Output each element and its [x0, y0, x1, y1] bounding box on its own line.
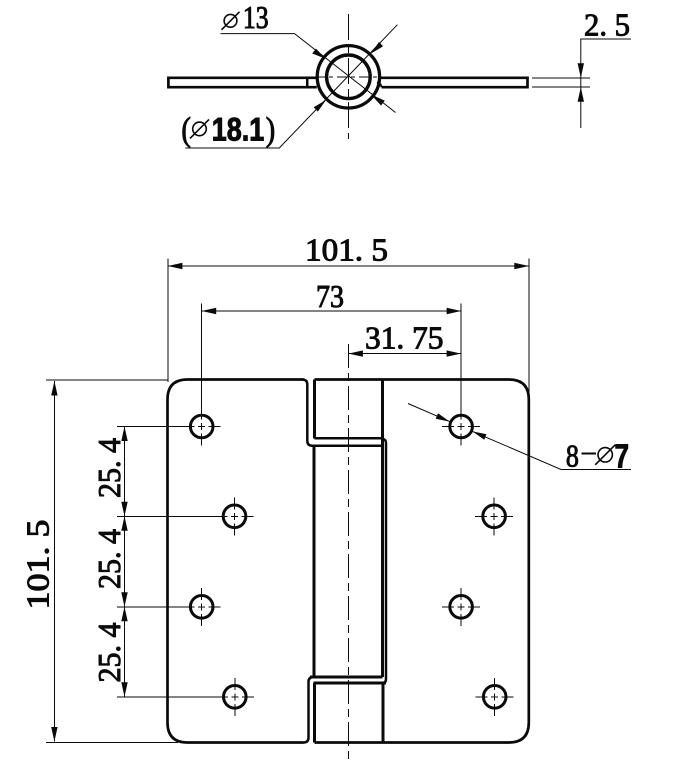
extension lines 101.5 top — [167, 259, 169, 383]
arrow 101.5-left bottom — [51, 727, 57, 742]
bottom knuckle right edge — [382, 683, 385, 743]
knuckle inner circle (⌀13) — [327, 55, 371, 99]
holes 8-dia7 — [190, 415, 506, 708]
hole R1 — [450, 415, 473, 438]
horizontal centerline of knuckle — [315, 76, 382, 78]
svg-text:101. 5: 101. 5 — [20, 520, 56, 610]
bottom knuckle top edge — [314, 682, 387, 685]
svg-text:13: 13 — [243, 0, 269, 35]
spring tube bottom edge — [310, 676, 382, 679]
arrow 101.5 left — [168, 263, 183, 269]
svg-text:8: 8 — [566, 437, 579, 473]
svg-text:73: 73 — [316, 278, 344, 314]
extension lines 101.5 left — [46, 379, 168, 381]
hole L1 — [190, 415, 213, 438]
top knuckle bottom edge — [315, 437, 383, 440]
arrow 73 left — [202, 308, 217, 314]
right leaf inner edge (outer right line) — [383, 439, 387, 683]
arrow dia13 lower-right — [371, 95, 385, 106]
top knuckle right edge / tube right inner edge — [381, 380, 384, 678]
leader line dia13 — [221, 34, 396, 113]
left leaf outline — [168, 380, 304, 743]
hinge pin centerline (front view) — [347, 344, 349, 760]
knuckle outer circle (⌀18.1) — [317, 46, 379, 108]
hole L3 — [190, 596, 213, 619]
2.5 dimension line — [581, 39, 631, 128]
svg-text:101. 5: 101. 5 — [305, 232, 388, 268]
svg-text:25. 4: 25. 4 — [91, 438, 127, 498]
hole R3 — [450, 596, 473, 619]
left leaf right edge upper segment — [302, 380, 312, 446]
leader line dia18.1 — [185, 25, 397, 148]
spring tube left edge — [313, 446, 316, 677]
2.5 thickness extension lines — [532, 77, 590, 79]
svg-text:7: 7 — [615, 437, 630, 474]
arrow 73 right — [447, 308, 462, 314]
spring tube top edge — [311, 444, 384, 447]
hole R4 — [483, 686, 506, 709]
arrow 101.5-left top — [51, 381, 57, 396]
leader 8-dia7 — [473, 431, 632, 469]
arrow dia18.1 lower-left — [314, 100, 326, 112]
svg-text:18.1: 18.1 — [212, 112, 264, 148]
arrow dia13 upper-left — [312, 49, 326, 59]
leader second shaft — [408, 404, 450, 422]
arrow 2.5 bottom (points up) — [578, 87, 584, 102]
arrow 101.5 right — [514, 263, 529, 269]
svg-text:): ) — [266, 112, 276, 149]
right leaf (top view bar) — [379, 78, 528, 87]
arrow 31.75 right — [447, 350, 462, 356]
svg-text:2. 5: 2. 5 — [584, 7, 630, 43]
top knuckle left edge — [313, 380, 316, 439]
chain arrows — [121, 427, 127, 442]
left leaf bend tick — [306, 78, 309, 87]
hole crosshairs — [183, 408, 514, 716]
arrow 31.75 left — [348, 350, 363, 356]
svg-text:25. 4: 25. 4 — [91, 529, 127, 589]
hole L2 — [223, 505, 246, 528]
dimension line 101.5 left — [53, 381, 55, 742]
svg-text:25. 4: 25. 4 — [91, 623, 127, 683]
left leaf (top view bar) — [168, 78, 316, 87]
label dia13 — [222, 12, 240, 30]
svg-text:(: ( — [181, 112, 191, 149]
right leaf bend notch — [377, 82, 382, 87]
arrow 2.5 top (points down) — [578, 63, 584, 78]
arrow 8-dia7 at hole upper-left (points down-right) — [436, 413, 450, 421]
hole R2 — [483, 505, 506, 528]
extension lines 25.4 rows — [117, 426, 184, 428]
hole L4 — [224, 686, 247, 709]
arrow 8-dia7 at hole lower-right (points up-left) — [473, 431, 487, 439]
dimension line 73 — [202, 310, 461, 312]
arrow dia18.1 upper-right — [371, 42, 383, 54]
extension lines 73 — [201, 304, 203, 416]
bottom knuckle left edge — [313, 683, 316, 743]
right leaf outline — [315, 380, 529, 743]
left leaf right edge lower segment — [304, 677, 314, 743]
dimension line 31.75 — [348, 353, 461, 355]
svg-text:31. 75: 31. 75 — [365, 320, 444, 356]
dimension line 101.5 top — [168, 265, 529, 267]
vertical centerline of knuckle — [347, 14, 349, 139]
chain dimension line 25.4 — [124, 427, 126, 697]
